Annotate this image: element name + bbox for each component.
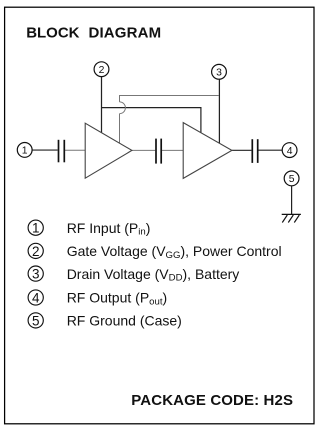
svg-text:Drain Voltage (VDD), Battery: Drain Voltage (VDD), Battery <box>67 266 240 284</box>
svg-text:1: 1 <box>22 146 28 157</box>
svg-text:BLOCK: BLOCK <box>26 24 79 41</box>
svg-text:RF Ground (Case): RF Ground (Case) <box>67 313 182 329</box>
svg-text:2: 2 <box>32 244 40 259</box>
svg-text:3: 3 <box>32 267 40 282</box>
svg-text:1: 1 <box>32 221 40 236</box>
svg-text:5: 5 <box>289 174 295 185</box>
svg-text:3: 3 <box>216 67 222 78</box>
svg-text:2: 2 <box>99 65 105 76</box>
svg-text:DIAGRAM: DIAGRAM <box>89 24 162 41</box>
svg-text:RF Input (Pin): RF Input (Pin) <box>67 220 151 238</box>
svg-text:4: 4 <box>32 290 40 305</box>
svg-text:4: 4 <box>287 146 293 157</box>
svg-text:5: 5 <box>32 313 40 328</box>
svg-text:PACKAGE CODE: H2S: PACKAGE CODE: H2S <box>131 392 293 409</box>
